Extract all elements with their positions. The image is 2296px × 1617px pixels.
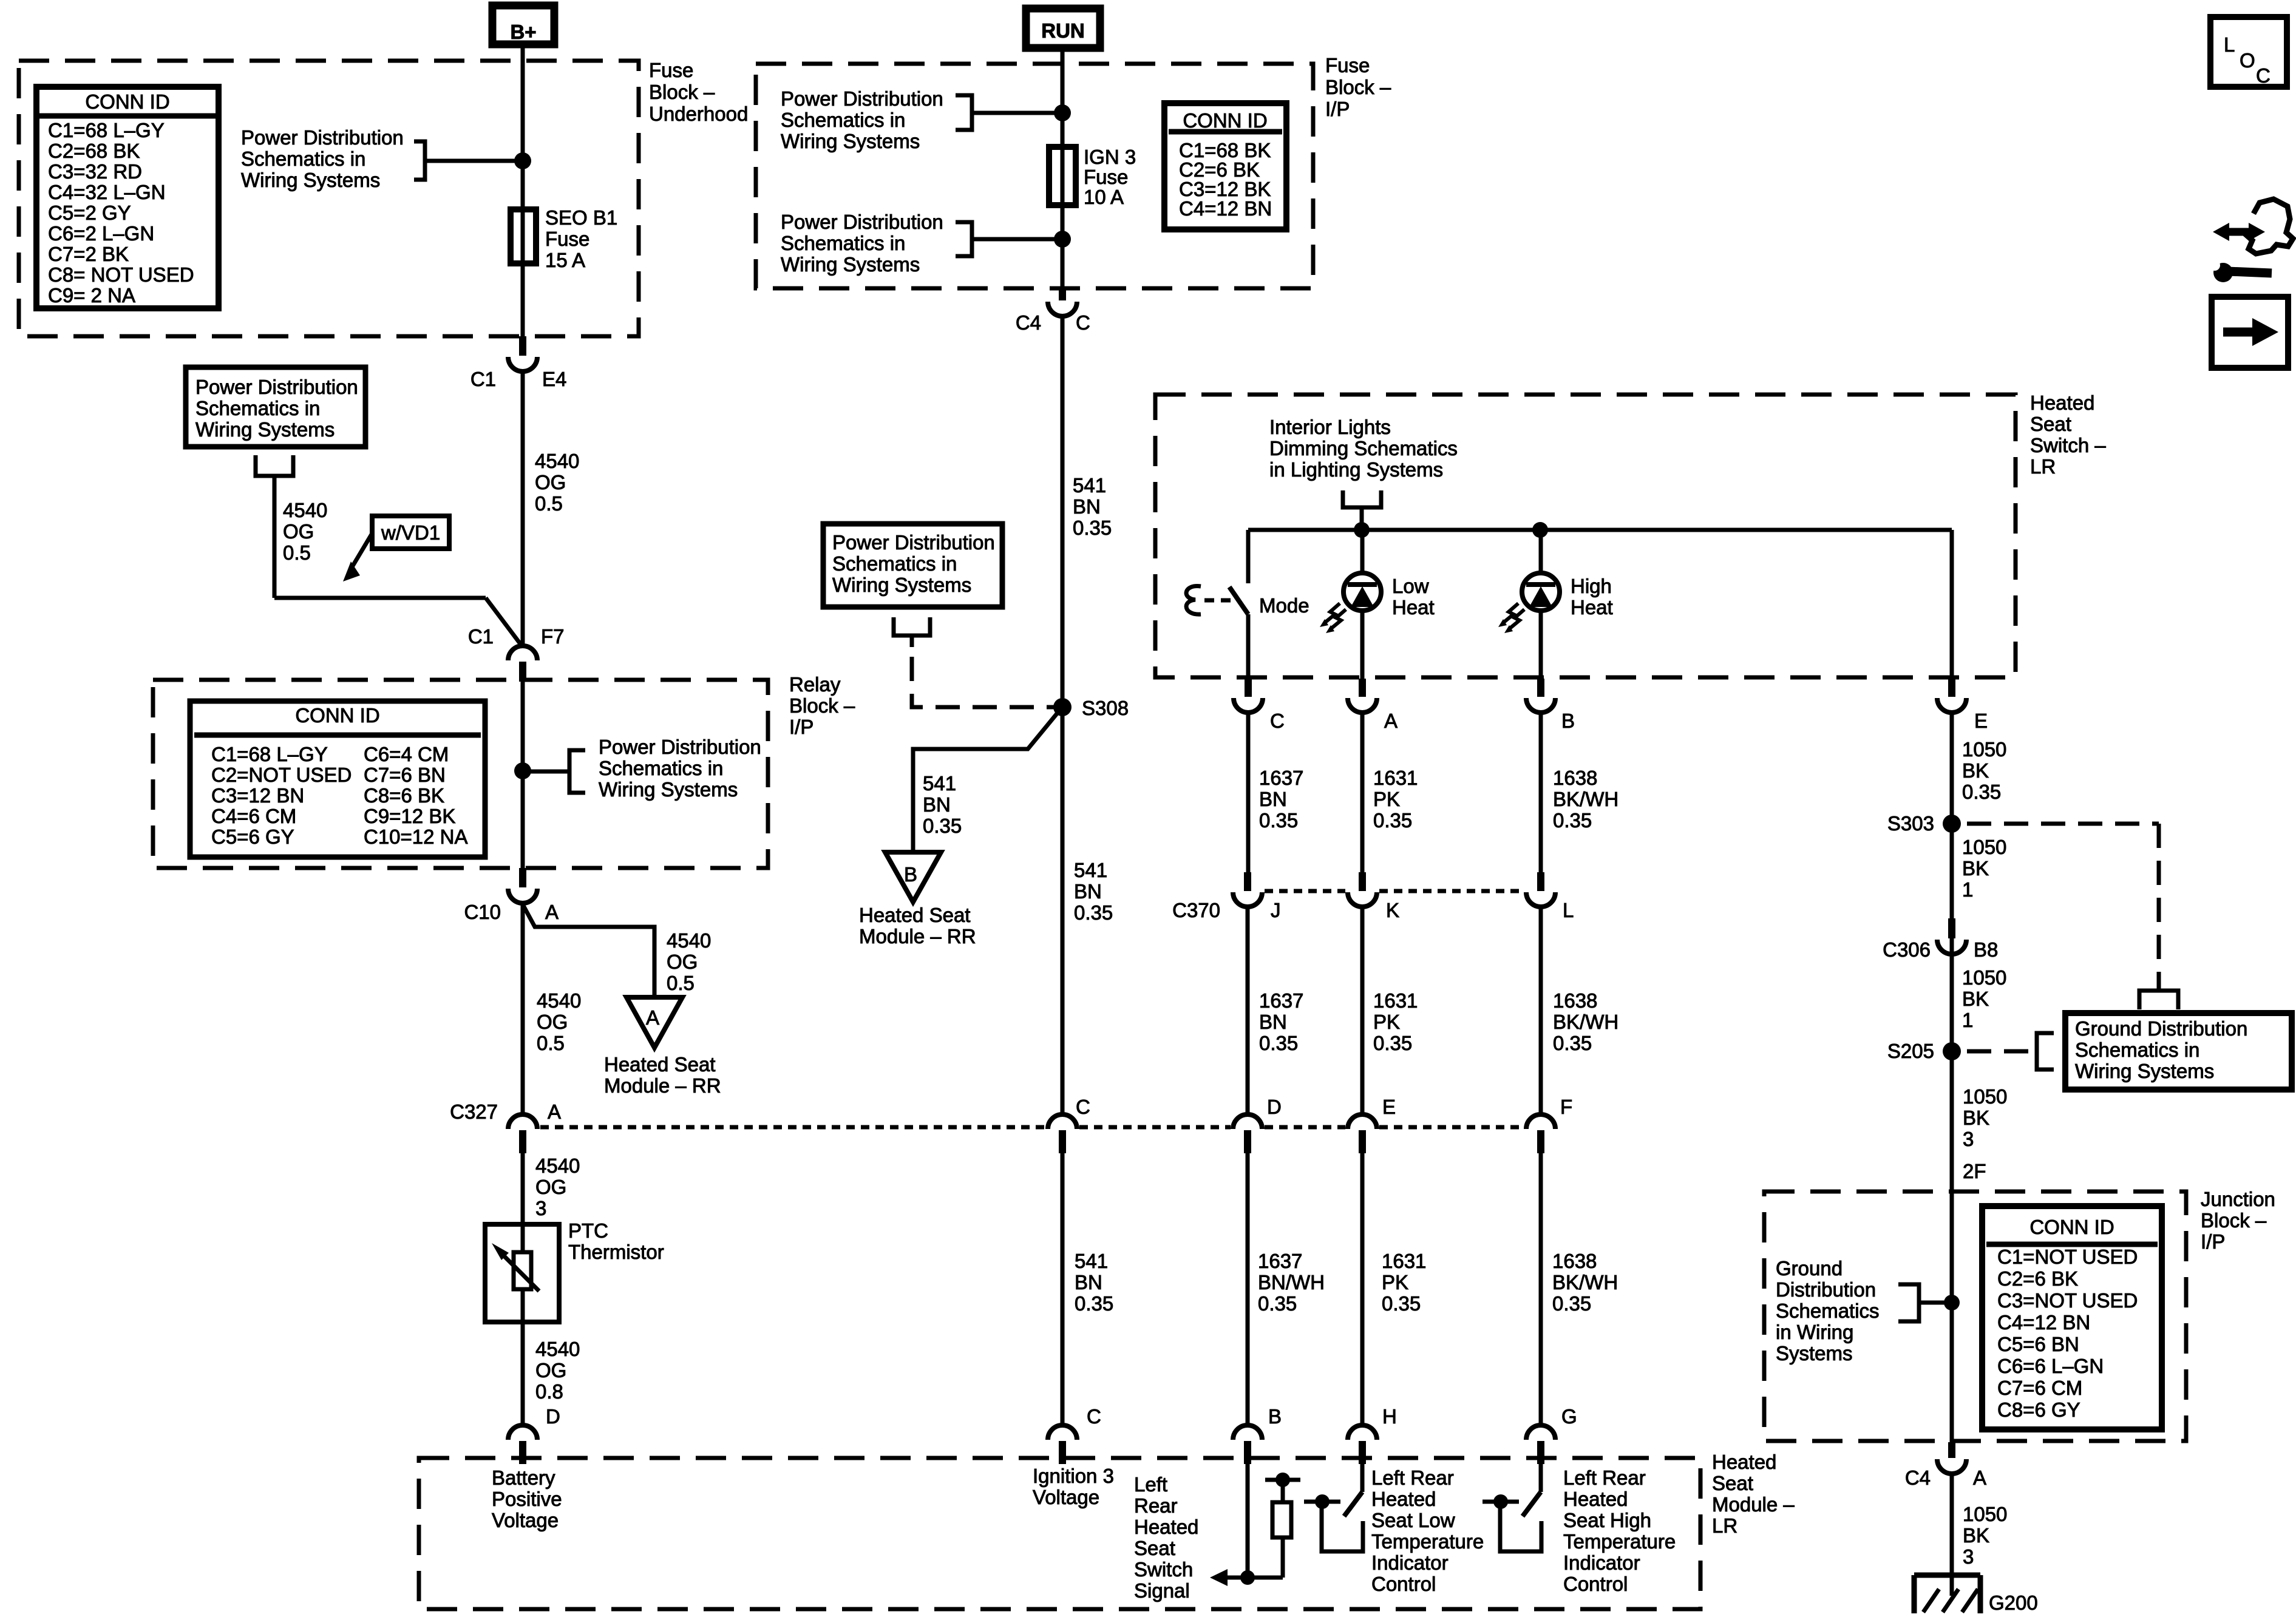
svg-text:1638: 1638	[1552, 1250, 1597, 1272]
svg-text:Temperature: Temperature	[1563, 1530, 1676, 1553]
svg-text:BK/WH: BK/WH	[1552, 1271, 1618, 1293]
svg-text:BK/WH: BK/WH	[1553, 788, 1618, 810]
svg-text:0.5: 0.5	[537, 1032, 565, 1054]
svg-text:BN: BN	[1075, 1271, 1102, 1293]
svg-text:0.35: 0.35	[1382, 1292, 1421, 1315]
svg-text:C1=68 L–GY: C1=68 L–GY	[211, 743, 328, 765]
svg-text:C: C	[1270, 710, 1285, 732]
svg-text:C327: C327	[450, 1100, 498, 1123]
svg-text:C306: C306	[1883, 938, 1931, 961]
svg-text:Wiring Systems: Wiring Systems	[781, 130, 920, 152]
svg-text:RUN: RUN	[1041, 19, 1085, 42]
svg-text:BK: BK	[1962, 759, 1989, 782]
svg-text:C8=6 BK: C8=6 BK	[364, 784, 444, 807]
svg-text:C: C	[1076, 1096, 1090, 1118]
svg-text:Block –: Block –	[2201, 1209, 2267, 1232]
svg-text:0.5: 0.5	[667, 972, 695, 994]
svg-text:Schematics in: Schematics in	[195, 397, 320, 419]
svg-text:C10=12 NA: C10=12 NA	[364, 825, 468, 848]
svg-text:Schematics in: Schematics in	[781, 232, 905, 254]
svg-text:Relay: Relay	[789, 673, 841, 696]
svg-text:L: L	[2224, 33, 2235, 56]
svg-text:Wiring Systems: Wiring Systems	[195, 418, 335, 441]
svg-text:1637: 1637	[1259, 767, 1303, 789]
svg-text:BK: BK	[1962, 857, 1989, 880]
svg-text:Seat High: Seat High	[1563, 1509, 1651, 1531]
svg-text:C9= 2 NA: C9= 2 NA	[48, 284, 135, 307]
svg-text:Seat Low: Seat Low	[1371, 1509, 1455, 1531]
svg-text:3: 3	[535, 1197, 546, 1219]
svg-text:C7=6 CM: C7=6 CM	[1997, 1377, 2082, 1399]
svg-text:0.5: 0.5	[283, 541, 311, 564]
svg-text:C5=6 BN: C5=6 BN	[1997, 1333, 2079, 1355]
svg-text:Signal: Signal	[1134, 1579, 1190, 1602]
svg-text:0.35: 0.35	[1258, 1292, 1297, 1315]
svg-text:SEO B1: SEO B1	[545, 206, 617, 229]
svg-text:C4: C4	[1905, 1466, 1931, 1489]
svg-text:Heat: Heat	[1392, 596, 1435, 619]
svg-text:4540: 4540	[283, 499, 327, 521]
svg-text:Fuse: Fuse	[1325, 54, 1370, 76]
svg-text:S303: S303	[1887, 812, 1934, 835]
svg-text:1050: 1050	[1962, 966, 2006, 989]
svg-text:1638: 1638	[1553, 767, 1597, 789]
svg-text:Heated: Heated	[1712, 1451, 1776, 1473]
svg-text:OG: OG	[535, 1359, 566, 1381]
svg-text:Interior Lights: Interior Lights	[1269, 416, 1391, 438]
svg-text:0.35: 0.35	[1074, 901, 1113, 924]
svg-text:A: A	[1384, 710, 1398, 732]
svg-text:BN: BN	[1259, 1011, 1287, 1033]
svg-text:A: A	[545, 901, 559, 923]
svg-text:Systems: Systems	[1776, 1342, 1853, 1364]
svg-text:Seat: Seat	[2030, 413, 2071, 435]
svg-text:B8: B8	[1974, 938, 1998, 961]
svg-text:C4=32 L–GN: C4=32 L–GN	[48, 181, 166, 203]
svg-text:1631: 1631	[1373, 989, 1418, 1012]
svg-text:0.35: 0.35	[1552, 1292, 1591, 1315]
svg-text:3: 3	[1963, 1545, 1974, 1568]
svg-text:BN: BN	[1074, 880, 1102, 903]
svg-text:0.35: 0.35	[1259, 809, 1298, 832]
svg-text:D: D	[1267, 1096, 1282, 1118]
svg-text:541: 541	[1075, 1250, 1108, 1272]
svg-text:Distribution: Distribution	[1776, 1278, 1876, 1301]
svg-text:Power Distribution: Power Distribution	[781, 87, 943, 110]
svg-text:Ground Distribution: Ground Distribution	[2075, 1017, 2247, 1040]
svg-text:in Wiring: in Wiring	[1776, 1321, 1853, 1343]
svg-text:2F: 2F	[1963, 1160, 1986, 1182]
svg-text:1638: 1638	[1553, 989, 1597, 1012]
svg-text:OG: OG	[535, 471, 566, 493]
svg-text:BK/WH: BK/WH	[1553, 1011, 1618, 1033]
svg-text:1050: 1050	[1962, 738, 2006, 761]
svg-text:C4=12 BN: C4=12 BN	[1179, 197, 1272, 220]
svg-text:Power Distribution: Power Distribution	[781, 211, 943, 233]
svg-text:3: 3	[1963, 1128, 1974, 1150]
svg-text:C5=2 GY: C5=2 GY	[48, 202, 131, 224]
svg-text:Block –: Block –	[789, 694, 855, 717]
svg-text:Seat: Seat	[1134, 1537, 1175, 1559]
svg-text:Rear: Rear	[1134, 1494, 1178, 1517]
svg-text:BN: BN	[923, 793, 951, 816]
svg-text:Control: Control	[1563, 1573, 1628, 1595]
svg-text:1631: 1631	[1382, 1250, 1426, 1272]
svg-text:Power Distribution: Power Distribution	[832, 531, 995, 554]
svg-text:I/P: I/P	[789, 716, 813, 738]
svg-text:C8= NOT USED: C8= NOT USED	[48, 263, 194, 286]
svg-text:B+: B+	[510, 21, 536, 43]
svg-text:C: C	[1076, 311, 1090, 334]
svg-text:BK: BK	[1963, 1107, 1989, 1129]
svg-text:Underhood: Underhood	[649, 103, 748, 125]
svg-text:C4: C4	[1016, 311, 1041, 334]
svg-text:Mode: Mode	[1259, 594, 1309, 617]
svg-text:C3=NOT USED: C3=NOT USED	[1997, 1289, 2138, 1312]
svg-text:0.8: 0.8	[535, 1380, 563, 1403]
svg-text:C7=6 BN: C7=6 BN	[364, 764, 446, 786]
svg-text:w/VD1: w/VD1	[381, 521, 440, 544]
svg-text:Ignition 3: Ignition 3	[1033, 1465, 1114, 1487]
svg-text:0.35: 0.35	[1373, 1032, 1412, 1054]
svg-text:C6=2 L–GN: C6=2 L–GN	[48, 222, 154, 245]
svg-text:C2=6 BK: C2=6 BK	[1997, 1267, 2078, 1290]
svg-text:Schematics in: Schematics in	[241, 147, 365, 170]
svg-text:Heated Seat: Heated Seat	[859, 904, 970, 926]
svg-text:Indicator: Indicator	[1563, 1551, 1640, 1574]
svg-text:IGN 3: IGN 3	[1084, 146, 1136, 168]
svg-text:Switch –: Switch –	[2030, 434, 2106, 456]
svg-text:0.5: 0.5	[535, 492, 563, 515]
svg-text:Wiring Systems: Wiring Systems	[599, 778, 738, 801]
svg-text:C1=68 L–GY: C1=68 L–GY	[48, 119, 165, 141]
svg-text:0.35: 0.35	[1259, 1032, 1298, 1054]
svg-text:I/P: I/P	[2201, 1230, 2225, 1253]
svg-text:1: 1	[1962, 1009, 1973, 1031]
svg-text:C2=NOT USED: C2=NOT USED	[211, 764, 352, 786]
svg-text:C1=NOT USED: C1=NOT USED	[1997, 1246, 2138, 1268]
svg-text:4540: 4540	[537, 989, 581, 1012]
svg-text:Schematics in: Schematics in	[599, 757, 723, 779]
svg-text:Heated: Heated	[1563, 1488, 1628, 1510]
svg-text:1: 1	[1962, 878, 1973, 901]
svg-text:Schematics in: Schematics in	[2075, 1039, 2199, 1061]
svg-text:G200: G200	[1989, 1592, 2038, 1614]
svg-text:Control: Control	[1371, 1573, 1436, 1595]
svg-text:Thermistor: Thermistor	[568, 1241, 664, 1263]
svg-text:Wiring Systems: Wiring Systems	[832, 574, 971, 596]
svg-text:C6=6 L–GN: C6=6 L–GN	[1997, 1355, 2104, 1377]
svg-text:CONN ID: CONN ID	[2029, 1216, 2114, 1238]
svg-text:E: E	[1974, 710, 1988, 732]
svg-text:C6=4 CM: C6=4 CM	[364, 743, 449, 765]
svg-text:4540: 4540	[667, 929, 711, 952]
svg-text:L: L	[1563, 899, 1574, 921]
svg-text:0.35: 0.35	[1073, 517, 1112, 539]
svg-text:Wiring Systems: Wiring Systems	[781, 253, 920, 276]
svg-text:K: K	[1386, 899, 1399, 921]
svg-text:B: B	[1268, 1405, 1282, 1428]
svg-text:G: G	[1561, 1405, 1577, 1428]
svg-text:Fuse: Fuse	[649, 59, 693, 81]
svg-text:Power Distribution: Power Distribution	[241, 126, 404, 149]
svg-text:Wiring Systems: Wiring Systems	[2075, 1060, 2214, 1082]
svg-text:LR: LR	[1712, 1514, 1737, 1537]
svg-text:4540: 4540	[535, 1338, 580, 1360]
svg-text:PK: PK	[1382, 1271, 1408, 1293]
svg-text:J: J	[1271, 899, 1281, 921]
svg-text:C9=12 BK: C9=12 BK	[364, 805, 455, 827]
svg-text:OG: OG	[537, 1011, 568, 1033]
svg-text:Schematics in: Schematics in	[781, 109, 905, 131]
svg-text:C: C	[1087, 1405, 1101, 1428]
svg-text:0.35: 0.35	[923, 815, 962, 837]
svg-text:B: B	[1561, 710, 1575, 732]
svg-text:E4: E4	[542, 368, 566, 390]
svg-text:C1: C1	[468, 625, 494, 648]
svg-text:Heated: Heated	[1371, 1488, 1436, 1510]
svg-text:0.35: 0.35	[1373, 809, 1412, 832]
svg-text:541: 541	[923, 772, 956, 795]
svg-text:Positive: Positive	[492, 1488, 562, 1510]
svg-text:1637: 1637	[1259, 989, 1303, 1012]
svg-text:O: O	[2240, 49, 2255, 72]
svg-text:CONN ID: CONN ID	[85, 90, 169, 113]
svg-text:BK: BK	[1962, 988, 1989, 1010]
svg-text:PK: PK	[1373, 788, 1400, 810]
svg-text:0.35: 0.35	[1962, 781, 2001, 803]
svg-text:1050: 1050	[1963, 1503, 2007, 1525]
svg-text:Heated: Heated	[1134, 1516, 1198, 1538]
svg-text:Seat: Seat	[1712, 1472, 1753, 1494]
svg-text:C3=12 BN: C3=12 BN	[211, 784, 304, 807]
svg-text:F: F	[1560, 1096, 1572, 1118]
svg-text:D: D	[546, 1405, 560, 1428]
svg-text:PTC: PTC	[568, 1219, 608, 1242]
svg-text:Power Distribution: Power Distribution	[599, 736, 761, 758]
svg-text:Module – RR: Module – RR	[604, 1074, 721, 1097]
svg-text:C1: C1	[470, 368, 496, 390]
svg-text:Left: Left	[1134, 1473, 1167, 1496]
svg-text:C4=6 CM: C4=6 CM	[211, 805, 296, 827]
svg-text:C4=12 BN: C4=12 BN	[1997, 1311, 2090, 1334]
svg-text:10 A: 10 A	[1084, 186, 1124, 208]
svg-text:0.35: 0.35	[1553, 1032, 1592, 1054]
svg-text:Ground: Ground	[1776, 1257, 1843, 1280]
svg-text:Power Distribution: Power Distribution	[195, 376, 358, 398]
svg-text:Indicator: Indicator	[1371, 1551, 1449, 1574]
svg-text:BN: BN	[1259, 788, 1287, 810]
svg-text:Voltage: Voltage	[1033, 1486, 1099, 1508]
svg-text:OG: OG	[667, 951, 698, 973]
svg-text:CONN ID: CONN ID	[295, 704, 379, 727]
svg-text:0.35: 0.35	[1553, 809, 1592, 832]
svg-text:Heated: Heated	[2030, 392, 2094, 414]
svg-text:Junction: Junction	[2201, 1188, 2275, 1210]
svg-text:Heat: Heat	[1571, 596, 1613, 619]
svg-text:C2=68 BK: C2=68 BK	[48, 140, 140, 162]
svg-text:Schematics in: Schematics in	[832, 552, 957, 575]
svg-text:A: A	[1973, 1466, 1986, 1489]
svg-text:Low: Low	[1392, 575, 1429, 597]
svg-text:Switch: Switch	[1134, 1558, 1193, 1581]
svg-text:Block –: Block –	[1325, 76, 1391, 98]
svg-text:15 A: 15 A	[545, 249, 585, 271]
svg-text:in Lighting Systems: in Lighting Systems	[1269, 458, 1443, 481]
svg-text:S205: S205	[1887, 1040, 1934, 1062]
svg-text:C8=6 GY: C8=6 GY	[1997, 1398, 2080, 1421]
svg-text:Left Rear: Left Rear	[1563, 1466, 1646, 1489]
svg-text:H: H	[1382, 1405, 1397, 1428]
svg-text:C10: C10	[464, 901, 501, 923]
svg-text:B: B	[904, 863, 917, 886]
svg-text:Module –: Module –	[1712, 1493, 1795, 1516]
svg-text:OG: OG	[283, 520, 314, 543]
svg-text:C3=32 RD: C3=32 RD	[48, 160, 142, 183]
svg-text:I/P: I/P	[1325, 98, 1350, 120]
svg-text:C: C	[2256, 64, 2271, 87]
svg-text:C5=6 GY: C5=6 GY	[211, 825, 294, 848]
svg-text:Wiring Systems: Wiring Systems	[241, 169, 380, 191]
svg-text:A: A	[548, 1100, 561, 1123]
svg-text:E: E	[1382, 1096, 1396, 1118]
svg-text:C370: C370	[1172, 899, 1220, 921]
svg-text:Voltage: Voltage	[492, 1509, 559, 1531]
svg-text:CONN ID: CONN ID	[1183, 109, 1267, 132]
svg-text:BN: BN	[1073, 495, 1101, 518]
svg-text:1637: 1637	[1258, 1250, 1302, 1272]
svg-text:PK: PK	[1373, 1011, 1400, 1033]
svg-text:LR: LR	[2030, 455, 2056, 478]
svg-text:Fuse: Fuse	[1084, 166, 1128, 188]
svg-text:Module – RR: Module – RR	[859, 925, 976, 947]
svg-text:S308: S308	[1082, 697, 1129, 719]
svg-text:1050: 1050	[1963, 1085, 2007, 1108]
svg-text:0.35: 0.35	[1075, 1292, 1113, 1315]
svg-text:541: 541	[1074, 859, 1107, 881]
svg-text:Schematics: Schematics	[1776, 1300, 1880, 1322]
svg-text:Block –: Block –	[649, 81, 715, 103]
svg-text:Fuse: Fuse	[545, 228, 589, 250]
svg-text:541: 541	[1073, 474, 1106, 497]
svg-text:1631: 1631	[1373, 767, 1418, 789]
svg-text:High: High	[1571, 575, 1612, 597]
svg-text:BK: BK	[1963, 1524, 1989, 1547]
svg-text:Battery: Battery	[492, 1466, 555, 1489]
svg-text:Left Rear: Left Rear	[1371, 1466, 1454, 1489]
svg-text:BN/WH: BN/WH	[1258, 1271, 1325, 1293]
svg-text:1050: 1050	[1962, 836, 2006, 858]
svg-text:4540: 4540	[535, 1154, 580, 1177]
svg-text:OG: OG	[535, 1176, 566, 1198]
svg-text:Heated Seat: Heated Seat	[604, 1053, 715, 1076]
svg-text:4540: 4540	[535, 450, 579, 472]
svg-text:C7=2 BK: C7=2 BK	[48, 243, 129, 265]
svg-text:Dimming Schematics: Dimming Schematics	[1269, 437, 1458, 459]
svg-text:Temperature: Temperature	[1371, 1530, 1484, 1553]
svg-text:A: A	[646, 1006, 659, 1029]
svg-text:F7: F7	[541, 625, 565, 648]
